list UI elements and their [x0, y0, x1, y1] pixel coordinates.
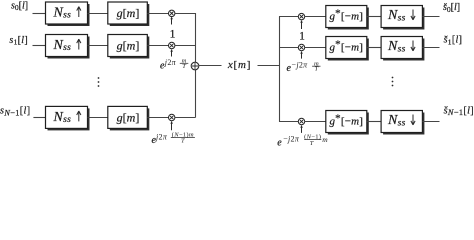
downsampler D2 Nss (RX row 2) [381, 37, 422, 59]
svg-text:1: 1 [299, 31, 305, 43]
carrier label 1 (RX row 1) [299, 31, 305, 43]
svg-text:g[m]: g[m] [117, 110, 140, 124]
wire RX row2 multiplier to filter [305, 47, 326, 49]
upsampler U2 Nss (TX row 2) shadow [48, 37, 90, 59]
svg-text:T: T [314, 66, 318, 73]
wire row2 to multiplier [147, 45, 168, 47]
output label s-breveN-1[l] [444, 105, 474, 117]
wire RX row1 filter to downsampler [367, 16, 381, 18]
filter box g[m] (TX row 1) [108, 2, 148, 24]
input label s1[l] [9, 35, 28, 47]
svg-text:s̆0[l]: s̆0[l] [443, 2, 460, 14]
matched filter box g*[-m] (RX row 2) [326, 37, 367, 59]
wire adder to x[m] [199, 65, 222, 67]
downsampler D1 Nss (RX row 1) shadow [383, 8, 424, 30]
TX bus vertical wire [195, 13, 197, 118]
wire RX row2 output [422, 47, 439, 49]
wire RX row2 filter to downsampler [367, 47, 381, 49]
wire RX row1 bus to multiplier [279, 16, 298, 18]
carrier arrow into M6 [300, 125, 303, 133]
multiplier M6 (RX row N-1) [298, 118, 304, 124]
svg-text:1: 1 [170, 28, 176, 40]
multiplier M3 (TX row N-1) [169, 114, 175, 120]
output label s-breve1[l] [444, 35, 463, 47]
carrier label e^(j2pi (N-1)m/T) (TX row N-1) [152, 132, 195, 147]
svg-text:−j2π: −j2π [292, 61, 309, 70]
vertical dots (TX) [98, 77, 100, 87]
wire row2 between boxes [88, 45, 108, 47]
carrier label e^(-j2pi (N-1)/T m) (RX row N-1) [277, 133, 328, 148]
multiplier M1 (TX row 1) [169, 10, 175, 16]
adder A1 [191, 62, 199, 70]
svg-text:j2π: j2π [155, 133, 168, 142]
matched filter box g*[-m] (RX row 2) shadow [328, 39, 369, 61]
svg-text:g*[−m]: g*[−m] [329, 112, 363, 127]
vertical dots (RX) [392, 77, 394, 87]
wire RX row1 multiplier to filter [305, 16, 326, 18]
downsampler D1 Nss (RX row 1) [381, 6, 422, 28]
multiplier M4 (RX row 1) [298, 13, 304, 19]
wire input row2 [33, 45, 46, 47]
svg-text:s̆N−1[l]: s̆N−1[l] [444, 105, 474, 117]
multiplier M2 (TX row 2) [169, 42, 175, 48]
filter box g[m] (TX row N-1) shadow [110, 108, 150, 130]
carrier arrow into M5 [300, 51, 303, 59]
matched filter box g*[-m] (RX row 1) [326, 6, 367, 28]
carrier arrow into M4 [300, 20, 303, 29]
svg-text:T: T [310, 140, 314, 146]
wire input row3 [33, 117, 45, 119]
wire row3 multiplier to bus [175, 117, 196, 119]
wire row1 to multiplier [147, 13, 168, 15]
downsampler D3 Nss (RX row N-1) shadow [383, 113, 424, 135]
svg-text:g*[−m]: g*[−m] [329, 38, 363, 53]
wire RX row2 bus to multiplier [279, 47, 298, 49]
svg-text:g*[−m]: g*[−m] [329, 7, 363, 22]
upsampler U3 Nss (TX row N-1) shadow [48, 108, 90, 130]
svg-text:T: T [182, 63, 186, 70]
filter box g[m] (TX row 2) [108, 35, 148, 57]
svg-text:g[m]: g[m] [117, 39, 140, 53]
svg-text:j2π: j2π [164, 58, 177, 67]
upsampler U2 Nss (TX row 2) [46, 35, 88, 57]
wire RX row3 filter to downsampler [367, 121, 381, 123]
upsampler U1 Nss (TX row 1) shadow [48, 4, 90, 26]
svg-text:s1[l]: s1[l] [9, 35, 28, 47]
downsampler D3 Nss (RX row N-1) [381, 111, 422, 133]
filter box g[m] (TX row 1) shadow [110, 4, 150, 26]
carrier arrow into M1 [170, 16, 173, 24]
wire row1 multiplier to bus [175, 13, 196, 15]
upsampler U3 Nss (TX row N-1) [46, 106, 88, 128]
downsampler D2 Nss (RX row 2) shadow [383, 39, 424, 61]
svg-text:x[m]: x[m] [227, 59, 251, 71]
svg-text:g[m]: g[m] [117, 6, 140, 20]
matched filter box g*[-m] (RX row N-1) [326, 111, 367, 133]
svg-text:e: e [277, 137, 282, 146]
upsampler U1 Nss (TX row 1) [46, 2, 88, 24]
svg-text:s0[l]: s0[l] [11, 0, 28, 12]
wire row1 between boxes [88, 13, 108, 15]
svg-text:T: T [181, 138, 185, 145]
carrier label 1 (TX row 1) [170, 28, 176, 40]
wire row3 between boxes [88, 117, 108, 119]
input label sN-1[l] [0, 106, 30, 118]
wire row3 to multiplier [147, 117, 168, 119]
node label x[m] [227, 59, 251, 71]
filter box g[m] (TX row 2) shadow [110, 37, 150, 59]
carrier label e^(-j2pi m/T) (RX row 2) [287, 60, 321, 74]
carrier arrow into M3 [170, 121, 173, 130]
matched filter box g*[-m] (RX row N-1) shadow [328, 113, 369, 135]
RX bus vertical wire [279, 17, 281, 122]
multiplier M5 (RX row 2) [298, 44, 304, 50]
carrier arrow into M2 [170, 49, 173, 57]
wire input row1 [33, 13, 46, 15]
wire RX row3 bus to multiplier [279, 121, 298, 123]
svg-text:sN−1[l]: sN−1[l] [0, 106, 30, 118]
wire RX row3 output [422, 121, 439, 123]
wire RX row3 multiplier to filter [305, 121, 326, 123]
wire row2 multiplier to bus [175, 45, 196, 47]
matched filter box g*[-m] (RX row 1) shadow [328, 8, 369, 30]
input label s0[l] [11, 0, 28, 12]
svg-text:m: m [322, 135, 328, 144]
svg-text:s̆1[l]: s̆1[l] [444, 35, 463, 47]
wire RX row1 output [422, 16, 439, 18]
wire x[m] to RX bus [258, 65, 281, 67]
carrier label e^(j2pi m/T) (TX row 2) [160, 58, 188, 72]
filter box g[m] (TX row N-1) [108, 106, 148, 128]
output label s-breve0[l] [443, 2, 460, 14]
svg-text:−j2π: −j2π [283, 135, 300, 144]
